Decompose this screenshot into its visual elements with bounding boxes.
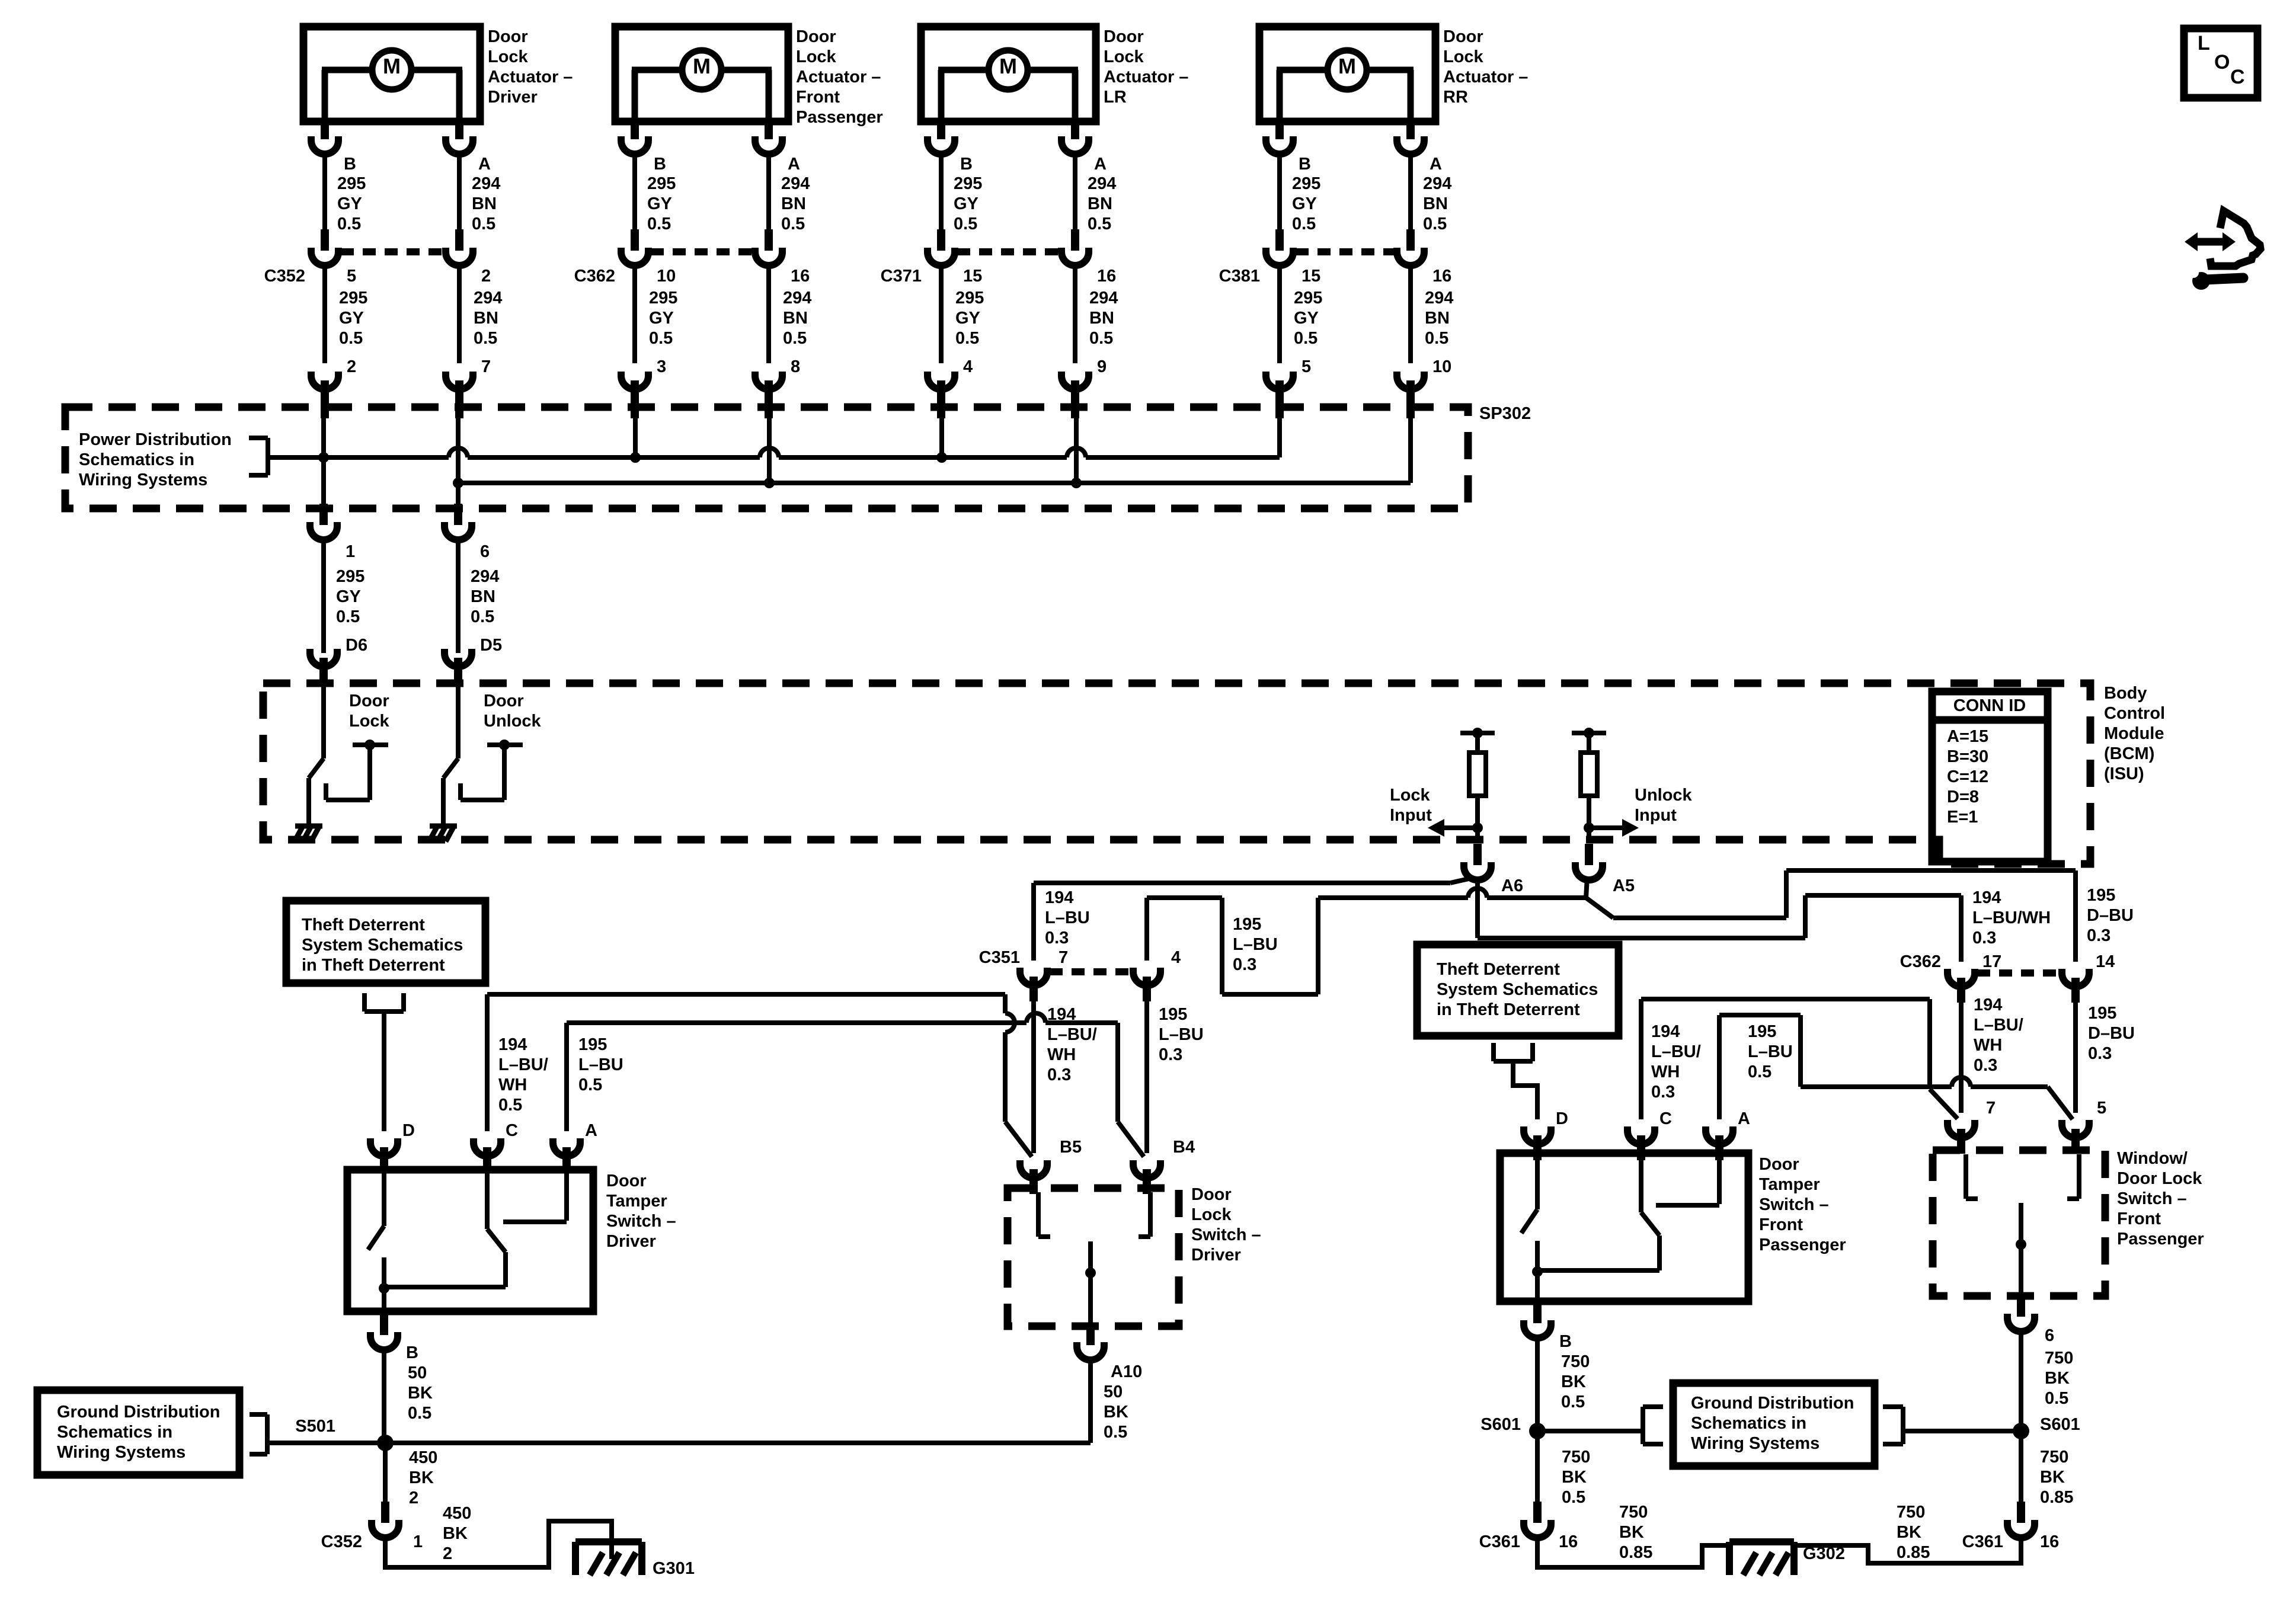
- svg-text:M: M: [999, 54, 1017, 78]
- connector C362 pin 14: [2062, 969, 2089, 1003]
- wire C351-4 to B4: [1144, 996, 1149, 1153]
- tamper A foot (passenger): [1656, 1203, 1719, 1208]
- dashed connector line C381: [1296, 248, 1395, 255]
- dashed connector line C351: [1050, 968, 1131, 975]
- wire A6 vertical down: [1475, 878, 1480, 938]
- bracket under theft box (driver): [364, 993, 404, 1012]
- hop of 195 wire over A6 vertical: [1468, 888, 1487, 898]
- connector pin B of U1: [311, 118, 338, 154]
- service icon banner outline: [2210, 211, 2260, 266]
- wire 194 tamper C up (driver): [485, 994, 490, 1131]
- svg-text:D: D: [1556, 1109, 1568, 1128]
- wire 195 detour up: [1316, 898, 1320, 994]
- ground distribution reference box (left): [37, 1390, 239, 1475]
- wire U2 A to C362: [766, 154, 771, 231]
- wire window pin6 to S601 right: [2019, 1331, 2023, 1431]
- wire SP302 pin8 to unlock bus: [767, 396, 772, 483]
- wire 194 horizontal from tamper C (passenger): [1641, 997, 1930, 1001]
- service icon wrench: [2188, 267, 2243, 290]
- tamper C foot (driver): [384, 1285, 506, 1289]
- wire C362 pin 16 to SP302 pin 8: [766, 265, 771, 363]
- svg-text:C352: C352: [264, 267, 305, 286]
- switch blade Door Unlock: [443, 674, 458, 825]
- wire bracket to S601 right: [1903, 1429, 2021, 1433]
- tamper junction dot (driver): [379, 1283, 389, 1294]
- wire resistor to arrow node Lock Input: [1475, 796, 1480, 840]
- connector pin B of U2: [621, 118, 648, 154]
- CONN ID header divider: [1932, 716, 2048, 724]
- svg-text:5: 5: [2097, 1099, 2106, 1118]
- hop of lock bus over wire 773: [449, 448, 468, 457]
- connector pin C tamper driver: [474, 1138, 501, 1172]
- bracket ground distribution left: [250, 1414, 267, 1454]
- svg-text:C352: C352: [321, 1532, 362, 1551]
- connector B4: [1133, 1160, 1160, 1194]
- dashed connector line C352: [341, 248, 443, 255]
- wire pin6 to D5: [456, 540, 461, 653]
- motor M symbol U3: [938, 50, 1078, 118]
- svg-text:16: 16: [1559, 1532, 1578, 1551]
- wire bracket to lock bus: [268, 455, 324, 460]
- wire SP302 pin2 through (x546): [321, 396, 326, 508]
- tamper A leg (driver): [564, 1170, 569, 1221]
- wire SP302 pin7 through (x773): [456, 396, 461, 508]
- motor M symbol U1: [322, 50, 462, 118]
- svg-text:C: C: [2230, 66, 2245, 88]
- wire 195 detour bottom: [1222, 992, 1318, 997]
- connector pin A tamper passenger: [1706, 1126, 1733, 1160]
- arrow Lock Input: [1443, 825, 1478, 830]
- service icon double arrow: [2185, 232, 2236, 251]
- lock bus (upper) in SP302: [324, 455, 449, 460]
- connector A5: [1575, 844, 1603, 880]
- hop of 195 wire over 194 wire (passenger): [1952, 1077, 1971, 1087]
- wire pin A of U3: [1073, 121, 1077, 123]
- svg-text:10: 10: [657, 267, 676, 286]
- svg-text:16: 16: [1097, 267, 1116, 286]
- wire A5 tail: [1586, 878, 1587, 898]
- ground G301: [575, 1542, 642, 1575]
- svg-text:4: 4: [963, 357, 973, 376]
- connector window pin 6: [2007, 1295, 2035, 1331]
- svg-text:16: 16: [1432, 267, 1451, 286]
- svg-text:A: A: [585, 1121, 597, 1140]
- svg-text:2: 2: [481, 267, 491, 286]
- svg-text:2: 2: [347, 357, 356, 376]
- wire SP302 pin3 to lock bus: [633, 396, 638, 457]
- wire SP302 pin5 to lock bus: [1277, 396, 1282, 457]
- svg-text:D: D: [402, 1121, 415, 1140]
- connector pin B of U3: [928, 118, 955, 154]
- svg-text:CONN ID: CONN ID: [1953, 696, 2026, 715]
- connector pin A of U4: [1397, 118, 1424, 154]
- connector SP302 entry pin 8: [755, 372, 782, 418]
- door lock actuator U2 box (FrontPassenger): [615, 27, 788, 121]
- svg-text:A: A: [478, 155, 491, 174]
- wire S601 left down: [1535, 1431, 1540, 1503]
- wire 195 tamper A up (passenger): [1717, 1015, 1722, 1119]
- bracket ground distribution (mid right): [1883, 1407, 1903, 1444]
- svg-text:15: 15: [1302, 267, 1320, 286]
- bracket under theft box (passenger): [1494, 1043, 1533, 1061]
- door lock switch driver common: [1088, 1241, 1093, 1326]
- junction S601 (left): [1529, 1423, 1546, 1439]
- wire tamper B to S601 left: [1535, 1338, 1540, 1431]
- ground inside BCM for Door Lock: [295, 826, 322, 841]
- wire bracket to S501: [267, 1441, 385, 1445]
- dashed connector line C371: [957, 248, 1059, 255]
- svg-text:G301: G301: [653, 1559, 695, 1578]
- svg-text:M: M: [383, 54, 401, 78]
- wire C362 pin 10 to SP302 pin 3: [632, 265, 637, 363]
- svg-text:L: L: [2198, 32, 2210, 55]
- wire resistor to arrow node Unlock Input: [1587, 796, 1591, 840]
- connector pin B tamper driver: [370, 1314, 398, 1350]
- BCM dashed outline: [263, 683, 2090, 864]
- svg-text:B5: B5: [1060, 1138, 1082, 1157]
- wire C381 pin 16 to SP302 pin 10: [1408, 265, 1413, 363]
- svg-text:B: B: [960, 155, 973, 174]
- wire bar to resistor Lock Input: [1475, 733, 1480, 753]
- svg-text:B: B: [654, 155, 666, 174]
- wire A10 to S501: [385, 1441, 1091, 1445]
- bracket to Power Distribution: [249, 438, 268, 475]
- tamper C vertical (driver): [503, 1252, 508, 1287]
- connector C351 pin 4: [1133, 968, 1160, 1001]
- svg-text:C: C: [1659, 1109, 1672, 1128]
- svg-text:17: 17: [1982, 952, 2001, 971]
- connector A6: [1464, 844, 1491, 880]
- connector pin A of U3: [1061, 118, 1089, 154]
- wire theft to tamper D (passenger): [1513, 1061, 1537, 1119]
- door lock actuator U4 box (RR): [1259, 27, 1435, 121]
- wire C362-14 to window pin 5: [2073, 997, 2078, 1113]
- wire S501 down to C352: [383, 1443, 388, 1503]
- door tamper switch box (passenger): [1500, 1153, 1748, 1301]
- svg-text:A: A: [1094, 155, 1107, 174]
- motor M symbol U2: [632, 50, 772, 118]
- connector SP302 entry pin 4: [928, 372, 955, 418]
- connector pin A tamper driver: [553, 1138, 580, 1172]
- svg-text:M: M: [693, 54, 711, 78]
- svg-text:4: 4: [1171, 948, 1181, 967]
- wire pin A of U4: [1408, 121, 1413, 123]
- wire 194 down to C351 pin 7: [1031, 883, 1036, 961]
- connector window pin 7: [1948, 1120, 1975, 1154]
- svg-text:8: 8: [791, 357, 800, 376]
- svg-text:3: 3: [657, 357, 666, 376]
- wire A10 down: [1088, 1360, 1093, 1443]
- wire U1 B to C352: [322, 154, 327, 231]
- svg-text:S601: S601: [2040, 1415, 2080, 1434]
- tamper switch D leg (driver): [382, 1170, 386, 1226]
- svg-text:B: B: [344, 155, 356, 174]
- junction S601 (right): [2013, 1423, 2029, 1439]
- svg-text:D5: D5: [480, 636, 502, 655]
- wire 195 horizontal to window pin 5: [1801, 1084, 1952, 1089]
- tamper A leg (passenger): [1717, 1153, 1722, 1204]
- svg-text:C361: C361: [1479, 1532, 1520, 1551]
- connector C362 pin 10: [621, 229, 648, 265]
- junction dot unlock bus x1816: [1071, 478, 1082, 488]
- svg-text:G302: G302: [1803, 1544, 1845, 1563]
- wire S601 right down: [2019, 1431, 2023, 1503]
- connector pin A of U2: [755, 118, 782, 154]
- wire 195 vertical (passenger): [1798, 1015, 1803, 1087]
- connector SP302 entry pin 5: [1266, 372, 1293, 418]
- contact bar above Unlock Input resistor: [1572, 731, 1606, 735]
- tamper switch common lower (driver): [382, 1257, 386, 1311]
- wire pin B of U3: [939, 121, 944, 123]
- svg-text:A: A: [788, 155, 800, 174]
- wire C361 left to G302: [1537, 1538, 1729, 1567]
- contact of Door Unlock switch: [461, 745, 523, 800]
- door lock actuator U1 box (Driver): [303, 27, 480, 121]
- svg-text:C362: C362: [1900, 952, 1941, 971]
- door lock switch driver dashed box: [1008, 1188, 1179, 1326]
- wire 194 down to C362 pin 17: [1959, 895, 1964, 962]
- svg-text:A: A: [1430, 155, 1442, 174]
- connector A10: [1077, 1324, 1104, 1360]
- svg-text:15: 15: [963, 267, 982, 286]
- wire pin A of U2: [766, 121, 771, 123]
- LOC legend box: [2184, 28, 2257, 98]
- wire C381 pin 15 to SP302 pin 5: [1277, 265, 1282, 363]
- connector D6 (BCM): [310, 649, 337, 683]
- wire 195 detour down: [1220, 898, 1224, 994]
- wire pin B of U2: [632, 121, 637, 123]
- connector SP302 exit pin 1: [310, 504, 337, 540]
- window switch common: [2019, 1203, 2023, 1296]
- hop of B5 feeder over 195 wire: [1005, 1013, 1015, 1032]
- wire SP302 pin10 to unlock bus: [1408, 396, 1413, 483]
- window/door lock switch dashed box: [1933, 1150, 2105, 1296]
- connector C362 pin 16: [755, 229, 782, 265]
- svg-text:A10: A10: [1111, 1362, 1142, 1381]
- svg-text:C381: C381: [1219, 267, 1260, 286]
- connector C371 pin 15: [928, 229, 955, 265]
- svg-text:M: M: [1338, 54, 1356, 78]
- connector C352 pin 5: [311, 229, 338, 265]
- diagonal into B4: [1118, 1122, 1144, 1157]
- wire C351-4 up: [1144, 898, 1149, 961]
- wire common to A10: [1088, 1325, 1093, 1326]
- door tamper switch box (driver): [347, 1170, 593, 1311]
- tamper junction dot (passenger): [1532, 1266, 1543, 1277]
- wire 195 tamper A up (driver): [564, 1023, 569, 1131]
- svg-text:16: 16: [2040, 1532, 2059, 1551]
- connector C381 pin 15: [1266, 229, 1293, 265]
- wire tamper B exit (driver): [382, 1311, 386, 1315]
- wire 194 horizontal right: [1478, 936, 1805, 940]
- wire pin B of U4: [1277, 121, 1282, 123]
- tamper C diagonal (driver): [487, 1229, 506, 1252]
- connector pin D tamper passenger: [1524, 1126, 1551, 1160]
- connector C371 pin 16: [1061, 229, 1089, 265]
- dashed connector line C362: [651, 248, 753, 255]
- connector pin B of U4: [1266, 118, 1293, 154]
- CONN ID table box: [1932, 692, 2048, 862]
- motor M symbol U4: [1277, 50, 1414, 118]
- tamper switch common lower (passenger): [1535, 1241, 1540, 1301]
- hop of 195 wire over B5 wire: [1027, 1013, 1045, 1023]
- junction dot unlock bus x773: [453, 478, 463, 488]
- wire 194 vertical to B5 diagonal: [1003, 994, 1008, 1013]
- svg-text:6: 6: [480, 542, 490, 561]
- connector SP302 entry pin 2: [311, 372, 338, 418]
- diagonal into window pin 7: [1930, 1089, 1958, 1119]
- arrow Unlock Input: [1589, 825, 1623, 830]
- junction dot contact Door Unlock: [499, 740, 510, 750]
- svg-text:B: B: [406, 1343, 418, 1362]
- SP302 dashed splice box: [65, 407, 1468, 508]
- diagonal into B5: [1005, 1122, 1032, 1157]
- connector C352 pin 2: [446, 229, 473, 265]
- B5 contact seat: [1036, 1192, 1041, 1237]
- svg-text:S501: S501: [295, 1417, 335, 1436]
- contact bar above Lock Input resistor: [1460, 731, 1495, 735]
- svg-text:B4: B4: [1173, 1138, 1195, 1157]
- svg-text:B: B: [1559, 1332, 1572, 1351]
- connector pin C tamper passenger: [1627, 1126, 1655, 1160]
- svg-text:B: B: [1299, 155, 1311, 174]
- wire bar to resistor Unlock Input: [1587, 733, 1591, 753]
- junction dot top Lock Input: [1472, 728, 1483, 738]
- ground G302: [1729, 1542, 1794, 1575]
- connector C352 pin 1 (body side): [372, 1502, 399, 1538]
- wire C361 right to G302: [1794, 1538, 2021, 1563]
- connector C362 pin 17: [1948, 969, 1975, 1003]
- connector pin A of U1: [446, 118, 473, 154]
- wire theft to tamper D (driver): [382, 1012, 386, 1131]
- svg-text:O: O: [2214, 51, 2230, 73]
- connector pin D tamper driver: [370, 1138, 398, 1172]
- connector SP302 entry pin 10: [1397, 372, 1424, 418]
- wire U1 A to C352: [457, 154, 462, 231]
- wire C371 pin 15 to SP302 pin 4: [939, 265, 944, 363]
- wire U3 B to C371: [939, 154, 944, 231]
- wire C351-7 to B5: [1031, 996, 1036, 1153]
- svg-text:D6: D6: [346, 636, 367, 655]
- window pin5 contact seat: [2077, 1154, 2081, 1199]
- door lock actuator U3 box (LR): [921, 27, 1096, 121]
- wire tamper B exit (passenger): [1535, 1301, 1540, 1303]
- tamper C leg (passenger): [1639, 1153, 1643, 1212]
- svg-text:A6: A6: [1501, 876, 1523, 895]
- junction dot Lock Input: [1472, 822, 1483, 833]
- window pin7 contact seat: [1964, 1154, 1968, 1199]
- wire 194 vertical to window pin 7: [1927, 999, 1932, 1089]
- wire U3 A to C371: [1073, 154, 1077, 231]
- tamper switch blade (driver): [368, 1226, 384, 1250]
- wire 195 horizontal from tamper A (passenger): [1719, 1013, 1801, 1017]
- junction dot lock bus x1589: [936, 452, 947, 463]
- junction dot door lock switch driver: [1085, 1267, 1096, 1278]
- junction dot contact Door Lock: [364, 740, 375, 750]
- wire A5 diagonal: [1586, 898, 1613, 918]
- hop of lock bus over wire 1298: [760, 448, 779, 457]
- diagonal into window pin 5: [2048, 1087, 2073, 1119]
- tamper C leg (driver): [485, 1170, 490, 1229]
- dashed connector line C362 right: [1977, 969, 2060, 977]
- wire A6 tail diagonal: [1450, 878, 1474, 883]
- B4 contact seat: [1148, 1192, 1153, 1237]
- junction dot unlock bus x1298: [764, 478, 775, 488]
- svg-text:A: A: [1738, 1109, 1750, 1128]
- theft deterrent reference box (passenger): [1417, 945, 1619, 1036]
- connector SP302 entry pin 7: [446, 372, 473, 418]
- bracket ground distribution (mid left): [1643, 1407, 1663, 1444]
- junction dot lock bus x1072: [630, 452, 641, 463]
- ground inside BCM for Door Unlock: [429, 826, 457, 841]
- wire pin A of U1: [457, 121, 462, 123]
- connector pin B tamper passenger: [1524, 1302, 1551, 1338]
- wire 194 horizontal to C351-7: [1034, 881, 1450, 885]
- tamper C diagonal (passenger): [1641, 1212, 1659, 1235]
- tamper A foot (driver): [503, 1219, 567, 1224]
- resistor Lock Input: [1469, 753, 1486, 796]
- wire window common to pin 6: [2019, 1296, 2023, 1297]
- wire 195 horizontal from tamper A: [567, 1020, 1027, 1025]
- resistor Unlock Input: [1581, 753, 1597, 796]
- junction dot lock bus x546: [318, 452, 329, 463]
- connector SP302 entry pin 9: [1061, 372, 1089, 418]
- wire 194 tamper C up (passenger): [1639, 999, 1643, 1119]
- junction dot Unlock Input: [1584, 822, 1594, 833]
- svg-text:C362: C362: [574, 267, 615, 286]
- wire 194 vertical up x3046: [1803, 895, 1808, 938]
- wire C362-17 to window pin 7: [1959, 997, 1964, 1113]
- wire 195 vertical up x3014: [1784, 870, 1789, 918]
- wire 195 horizontal (label detour top-left): [1147, 895, 1222, 900]
- svg-text:5: 5: [347, 267, 356, 286]
- tamper C vertical (passenger): [1657, 1235, 1662, 1270]
- svg-text:7: 7: [481, 357, 491, 376]
- theft deterrent reference box (driver): [286, 901, 485, 983]
- tamper switch blade (passenger): [1521, 1209, 1537, 1233]
- hop of lock bus over wire 1816: [1067, 448, 1086, 457]
- wire 194 horizontal from tamper C: [487, 992, 1005, 997]
- wire 195 horizontal right: [1613, 916, 1786, 920]
- svg-text:SP302: SP302: [1479, 404, 1531, 423]
- connector C361 pin 16 (right): [2007, 1502, 2035, 1538]
- tamper switch D leg (passenger): [1535, 1153, 1540, 1209]
- connector C351 pin 7: [1020, 968, 1047, 1001]
- unlock bus (lower) in SP302: [458, 481, 1411, 485]
- connector C381 pin 16: [1397, 229, 1424, 265]
- wire C352 pin 2 to SP302 pin 7: [457, 265, 462, 363]
- svg-text:1: 1: [413, 1532, 423, 1551]
- wire 195 horizontal to A5: [1318, 895, 1468, 900]
- wire U4 A to C381: [1408, 154, 1413, 231]
- svg-text:1: 1: [346, 542, 355, 561]
- svg-text:9: 9: [1097, 357, 1107, 376]
- svg-text:S601: S601: [1480, 1415, 1521, 1434]
- wire U2 B to C362: [632, 154, 637, 231]
- connector C361 pin 16 (left): [1524, 1502, 1551, 1538]
- wire 195 down to C362 pin 14: [2073, 870, 2078, 962]
- svg-text:7: 7: [1986, 1099, 1996, 1118]
- svg-text:A5: A5: [1613, 876, 1635, 895]
- wire S601 left to bracket: [1537, 1429, 1643, 1433]
- svg-text:5: 5: [1302, 357, 1311, 376]
- contact of Door Lock switch: [326, 745, 388, 800]
- wire 195 vertical to B4 diagonal: [1115, 1023, 1120, 1122]
- connector SP302 entry pin 3: [621, 372, 648, 418]
- connector B5: [1020, 1160, 1047, 1194]
- junction dot window switch: [2016, 1239, 2026, 1250]
- svg-text:C371: C371: [881, 267, 922, 286]
